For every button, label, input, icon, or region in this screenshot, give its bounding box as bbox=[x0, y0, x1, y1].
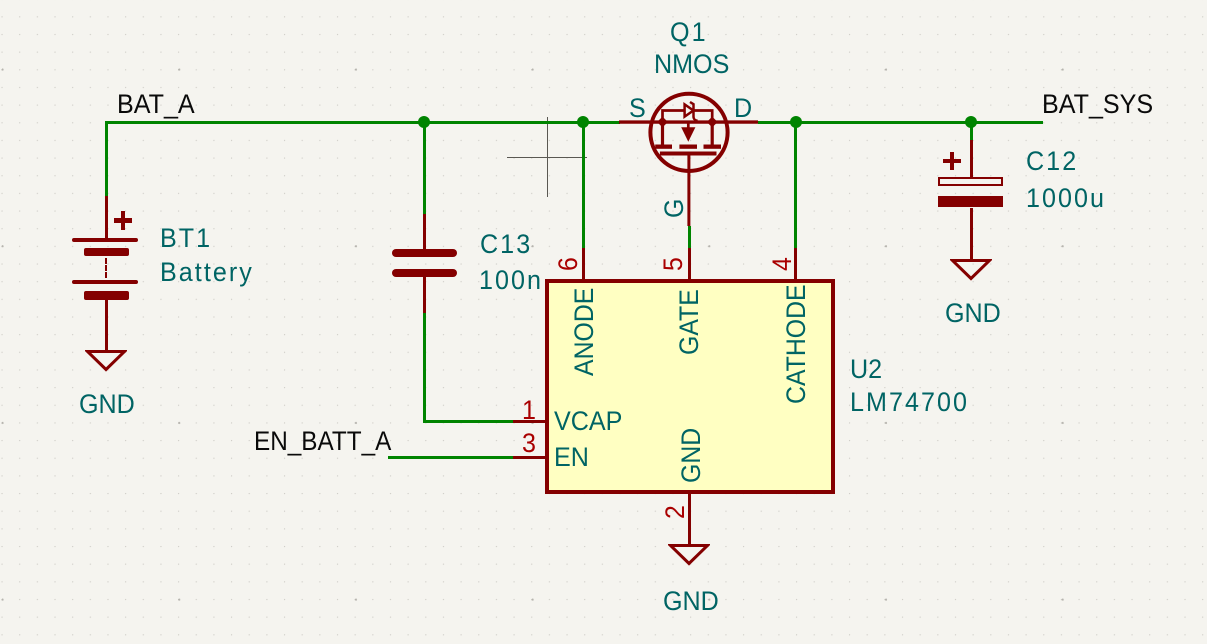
U2 pin name CATHODE bbox=[783, 284, 810, 404]
battery BT1 plates bbox=[72, 238, 138, 242]
U2 pin name VCAP bbox=[554, 408, 622, 435]
junction at C13 branch bbox=[418, 116, 430, 128]
value 1000u bbox=[1026, 185, 1106, 212]
Q1 pin label S bbox=[629, 95, 646, 122]
Q1 drain contact dot bbox=[707, 117, 718, 128]
wire down to capacitor C12 bbox=[970, 122, 973, 141]
U2 pin number 3 bbox=[522, 430, 536, 457]
GND text below BT1 bbox=[79, 391, 135, 418]
U2 pin name ANODE bbox=[571, 287, 598, 375]
Q1 source-drain line with pins S and D bbox=[619, 120, 758, 123]
Q1 source stub bbox=[661, 122, 664, 147]
capacitor C12 bottom pin bbox=[970, 208, 973, 262]
transistor Q1 NMOS bbox=[600, 80, 780, 230]
wire net BAT_SYS horizontal segment bbox=[758, 121, 1043, 124]
U2 pin number 2 bbox=[662, 505, 689, 519]
value Battery bbox=[160, 259, 254, 286]
Q1 drain stub bbox=[711, 122, 714, 147]
Q1 bulk arrow bbox=[681, 127, 695, 142]
capacitor C13 top plate bbox=[392, 249, 456, 257]
U2 pin 3 EN stub bbox=[513, 456, 546, 459]
junction at CATHODE branch bbox=[790, 116, 802, 128]
cursor crosshair vertical arm bbox=[547, 117, 548, 197]
U2 pin number 6 bbox=[555, 257, 582, 271]
battery BT1 plus sign bbox=[114, 218, 133, 222]
Q1 channel segments bbox=[655, 145, 672, 149]
GND text below U2 bbox=[663, 588, 719, 615]
U2 pin 4 CATHODE stub bbox=[794, 248, 797, 281]
U2 pin number 1 bbox=[522, 397, 536, 424]
capacitor C12 negative plate bbox=[938, 196, 1003, 207]
Q1 body circle bbox=[650, 94, 727, 171]
U2 pin name GATE bbox=[676, 289, 703, 355]
value 100n bbox=[479, 267, 543, 294]
cursor crosshair horizontal arm bbox=[507, 157, 587, 158]
wire C13 bottom vertical segment bbox=[423, 313, 426, 423]
net label BAT_A bbox=[117, 91, 195, 118]
ground symbol below BT1 bbox=[85, 349, 127, 373]
capacitor C13 bottom pin bbox=[423, 277, 426, 313]
U2 pin number 5 bbox=[660, 257, 687, 271]
capacitor C12 positive plate bbox=[938, 177, 1003, 186]
GND text below C12 bbox=[945, 300, 1001, 327]
reference U2 bbox=[850, 356, 882, 383]
Q1 body-diode rail bbox=[663, 111, 713, 123]
wire to U2 pin 1 VCAP bbox=[423, 420, 514, 423]
wire EN_BATT_A to U2 pin 3 EN bbox=[388, 456, 513, 459]
ground symbol below C12 bbox=[950, 258, 992, 282]
U2 pin 6 ANODE stub bbox=[582, 248, 585, 281]
junction at ANODE branch bbox=[577, 116, 589, 128]
Q1 pin label G bbox=[661, 199, 688, 218]
wire down to capacitor C13 bbox=[423, 122, 426, 214]
reference Q1 bbox=[670, 19, 708, 46]
Q1 body-diode schottky cathode bar bbox=[690, 102, 698, 121]
U2 pin 1 VCAP stub bbox=[513, 420, 546, 423]
Q1 body-diode triangle bbox=[685, 104, 694, 116]
U2 pin 5 GATE stub bbox=[688, 248, 691, 281]
value NMOS bbox=[654, 51, 729, 78]
wire net BAT_A horizontal segment bbox=[105, 121, 620, 124]
wire down to U2 pin 6 ANODE bbox=[582, 122, 585, 248]
capacitor C12 plus sign bbox=[943, 159, 962, 163]
value LM74700 bbox=[850, 389, 969, 416]
capacitor C13 bottom plate bbox=[392, 269, 456, 277]
capacitor C12 top pin bbox=[970, 140, 973, 178]
Q1 pin label D bbox=[734, 95, 752, 122]
wire down to U2 pin 4 CATHODE bbox=[794, 122, 797, 248]
reference BT1 bbox=[160, 225, 212, 252]
ground symbol below U2 bbox=[668, 543, 710, 567]
net label EN_BATT_A bbox=[254, 428, 391, 455]
U2 pin name GND bbox=[678, 427, 705, 482]
junction at C12 branch bbox=[965, 116, 977, 128]
battery BT1 top pin bbox=[105, 196, 108, 240]
op-amp-style body of IC U2 LM74700 bbox=[545, 279, 835, 494]
net label BAT_SYS bbox=[1042, 91, 1153, 118]
battery BT1 bottom pin bbox=[105, 299, 108, 353]
Q1 gate bar bbox=[660, 152, 717, 156]
wire Q1 gate to U2 pin 5 GATE bbox=[688, 226, 691, 248]
U2 pin name EN bbox=[554, 444, 589, 471]
reference C12 bbox=[1026, 148, 1078, 175]
Q1 gate pin bbox=[687, 155, 690, 226]
capacitor C13 top pin bbox=[423, 214, 426, 249]
wire BAT_A down to battery BT1 bbox=[105, 121, 108, 197]
Q1 source contact dot bbox=[657, 117, 668, 128]
U2 pin 2 GND stub bbox=[688, 493, 691, 546]
reference C13 bbox=[480, 231, 532, 258]
U2 pin number 4 bbox=[769, 257, 796, 271]
